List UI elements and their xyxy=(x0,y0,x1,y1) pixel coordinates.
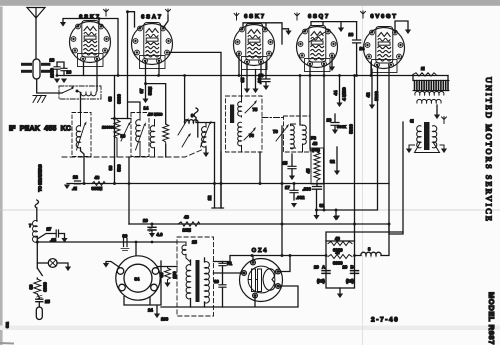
top cap tick xyxy=(295,13,300,20)
transformer IF2 dashed box xyxy=(226,62,263,152)
svg-text:15: 15 xyxy=(283,161,288,166)
node heater junction xyxy=(36,241,39,244)
svg-text:32: 32 xyxy=(330,159,335,164)
ground xyxy=(61,238,67,243)
ground xyxy=(103,263,109,268)
top cap tick xyxy=(104,9,109,16)
wire IF1 primary lead xyxy=(169,52,221,208)
tube V5 6V6GT xyxy=(364,14,405,73)
svg-text:.06: .06 xyxy=(257,77,262,84)
svg-text:19: 19 xyxy=(327,118,332,123)
resistor 46 47 filter xyxy=(326,236,355,288)
antenna xyxy=(27,8,45,19)
wire antenna lead xyxy=(35,18,37,59)
svg-text:100000: 100000 xyxy=(102,126,115,130)
svg-text:4.0: 4.0 xyxy=(157,232,164,237)
svg-text:22: 22 xyxy=(73,175,78,180)
fuse battery plug xyxy=(36,307,42,320)
svg-text:6I: 6I xyxy=(410,119,414,124)
capacitor 35 cathode xyxy=(240,62,250,93)
svg-text:50M: 50M xyxy=(148,86,153,95)
lamp pilot light xyxy=(37,259,68,268)
capacitor 29B xyxy=(343,265,359,284)
svg-text:29: 29 xyxy=(143,218,148,223)
capacitor 32 xyxy=(330,147,340,175)
wire IF2 secondary leads xyxy=(212,123,224,209)
svg-text:500: 500 xyxy=(117,164,122,172)
svg-text:17: 17 xyxy=(285,185,290,190)
ground xyxy=(54,79,60,84)
top cap tick xyxy=(442,117,447,124)
wire bus y75 xyxy=(57,75,448,77)
wire top grid bus xyxy=(63,19,118,76)
wire heater down xyxy=(36,236,38,268)
wire osc tap down xyxy=(80,93,82,113)
capacitor 17 xyxy=(285,184,305,208)
svg-text:30: 30 xyxy=(123,234,128,239)
inductor 7 heater choke xyxy=(29,221,37,243)
ground xyxy=(338,28,344,33)
svg-text:33: 33 xyxy=(159,272,164,277)
inductor detector coil 79 xyxy=(284,116,311,152)
svg-text:47: 47 xyxy=(336,250,341,255)
svg-text:48: 48 xyxy=(184,215,189,220)
svg-text:76: 76 xyxy=(249,133,254,138)
svg-text:MODEL R687: MODEL R687 xyxy=(487,292,496,345)
wire tube V5 plate down xyxy=(389,65,403,234)
resistor 30 xyxy=(29,279,48,294)
ground 24 xyxy=(148,308,169,322)
wire tube V3 cathode xyxy=(239,54,261,76)
svg-text:300M: 300M xyxy=(92,186,103,191)
svg-text:28: 28 xyxy=(50,58,55,63)
capacitor 29 electrolytic xyxy=(143,218,163,238)
svg-text:27: 27 xyxy=(47,227,52,232)
potentiometer 79 arrow xyxy=(273,124,289,141)
svg-text:100: 100 xyxy=(161,317,169,322)
ground chassis hatch xyxy=(33,96,46,103)
svg-text:.0I: .0I xyxy=(72,186,77,191)
svg-text:F1: F1 xyxy=(227,261,233,266)
svg-text:26: 26 xyxy=(67,70,72,75)
wire OZ4 plate top xyxy=(214,256,327,262)
wire speaker top feed xyxy=(135,242,137,256)
wire tube V5 cathode xyxy=(370,62,372,76)
svg-text:UNITED MOTORS SERVICE: UNITED MOTORS SERVICE xyxy=(484,77,493,223)
wire B feed right xyxy=(326,232,403,241)
node junctions on AVC bus xyxy=(83,85,296,186)
tube V2 6SA7 xyxy=(132,14,173,68)
coil antenna primary dashed box xyxy=(59,86,101,99)
svg-text:10: 10 xyxy=(214,279,219,284)
ground xyxy=(203,148,209,157)
svg-text:37: 37 xyxy=(139,88,144,93)
ground xyxy=(434,115,440,120)
svg-text:TO HEATERS: TO HEATERS xyxy=(38,164,43,191)
ground cathode V4 xyxy=(329,56,335,71)
tube V3 6SK7 xyxy=(234,14,275,70)
capacitor 23 coupling xyxy=(349,22,365,76)
inductor 9 osc padder coil xyxy=(178,76,198,148)
wire speaker mount box xyxy=(124,261,161,313)
ground xyxy=(64,185,70,190)
capacitor 44 xyxy=(333,76,347,108)
svg-text:.002: .002 xyxy=(296,195,305,200)
svg-text:12: 12 xyxy=(207,195,212,200)
wire audio coupling to V5 grid xyxy=(315,65,378,212)
diode plates V4 xyxy=(309,32,326,43)
svg-text:75: 75 xyxy=(253,107,258,112)
capacitor 25 xyxy=(36,294,51,307)
svg-text:2I: 2I xyxy=(421,66,425,71)
svg-text:6SQ7: 6SQ7 xyxy=(308,14,330,20)
capacitor 27 spark plate xyxy=(37,227,64,243)
node junctions on B plus xyxy=(151,223,391,226)
wire main line AVC bus xyxy=(67,183,389,185)
wire tube V4 pins down xyxy=(310,64,324,210)
wire volume to V4 grid xyxy=(281,126,283,256)
speaker 34 xyxy=(116,256,160,300)
inductor 14 osc grid coil xyxy=(144,106,163,158)
svg-text:IF PEAK 455 KC: IF PEAK 455 KC xyxy=(9,126,71,133)
svg-text:6SK7: 6SK7 xyxy=(79,14,101,20)
svg-text:34: 34 xyxy=(135,277,140,282)
svg-text:33: 33 xyxy=(108,96,113,101)
wire heater lead xyxy=(35,164,42,221)
wire volume bottom xyxy=(165,145,167,157)
wire AVC vertical xyxy=(108,76,122,184)
wire B+ vertical xyxy=(349,76,355,242)
transformer vibrator dashed box xyxy=(177,237,214,316)
ground xyxy=(61,79,67,84)
svg-text:45: 45 xyxy=(306,168,311,173)
svg-text:10M: 10M xyxy=(183,228,192,233)
wire osc B drop xyxy=(128,157,130,224)
resistor 21 output xyxy=(413,66,436,76)
ground xyxy=(334,216,340,221)
capacitor 18 xyxy=(259,62,271,90)
wire AVC dashdot xyxy=(262,117,284,119)
svg-text:(60): (60) xyxy=(317,279,325,284)
svg-text:A: A xyxy=(322,265,325,270)
svg-text:42: 42 xyxy=(366,92,371,97)
svg-text:24: 24 xyxy=(148,308,153,313)
svg-text:5000: 5000 xyxy=(374,91,379,101)
transformer output primary xyxy=(413,75,449,115)
tube V4 6SQ7 xyxy=(297,14,338,72)
wire filament line xyxy=(37,241,177,243)
ground xyxy=(441,149,447,154)
resistor 41 xyxy=(92,175,106,191)
capacitor 22 xyxy=(72,175,81,192)
svg-text:4 MEG: 4 MEG xyxy=(342,87,347,101)
wire gang dashed line xyxy=(62,150,203,158)
svg-text:6SA7: 6SA7 xyxy=(141,14,163,20)
ground xyxy=(405,30,411,35)
svg-text:48: 48 xyxy=(95,175,100,180)
svg-text:30: 30 xyxy=(29,284,34,289)
capacitor 29A xyxy=(314,265,330,284)
svg-text:.006: .006 xyxy=(303,187,312,192)
svg-text:25: 25 xyxy=(192,240,197,245)
node grid cap junction xyxy=(126,10,168,118)
wire tuning coil to AVC xyxy=(81,148,85,184)
svg-text:16: 16 xyxy=(121,134,126,139)
resistor 16 xyxy=(102,117,131,157)
svg-text:F3: F3 xyxy=(311,136,317,141)
svg-text:6V6GT: 6V6GT xyxy=(370,14,397,20)
svg-text:6SK7: 6SK7 xyxy=(244,14,266,20)
capacitor antenna trimmer plates xyxy=(21,59,51,79)
svg-text:6000: 6000 xyxy=(43,282,48,292)
svg-text:25: 25 xyxy=(45,299,50,304)
capacitor 37 grid xyxy=(139,61,153,103)
wire IF2 to diode xyxy=(259,152,261,184)
node junction dots xyxy=(56,17,373,257)
wire tube V3 plate cage xyxy=(243,23,289,44)
resistor 33 hum xyxy=(158,267,178,288)
ground xyxy=(313,210,319,220)
capacitor 42 xyxy=(366,69,380,109)
svg-text:39: 39 xyxy=(108,165,113,170)
svg-text:2-7-40: 2-7-40 xyxy=(371,317,399,324)
ground xyxy=(333,210,339,221)
capacitor buffer F1 xyxy=(214,261,233,307)
capacitor 19 xyxy=(327,114,347,134)
svg-text:79: 79 xyxy=(273,129,278,134)
node xyxy=(251,254,292,257)
ground xyxy=(406,149,412,154)
svg-text:.25 MEG: .25 MEG xyxy=(148,113,163,117)
wire B plus line xyxy=(129,223,389,225)
inductor IF1 secondary xyxy=(194,108,215,148)
top cap tick xyxy=(361,11,366,18)
resistor 45 grid leak box xyxy=(306,136,324,185)
resistor 48 xyxy=(178,215,200,233)
svg-text:5000: 5000 xyxy=(349,124,354,134)
wire tube V5 plate top xyxy=(395,21,408,33)
svg-text:392: 392 xyxy=(6,322,10,328)
speaker field coil and cone xyxy=(409,119,444,153)
top cap tick xyxy=(166,9,171,16)
wire tube V2 cathode xyxy=(158,61,160,76)
svg-text:1000: 1000 xyxy=(50,68,55,78)
inductor oscillator coil dashed box xyxy=(131,112,149,157)
wire speaker frame ground xyxy=(106,262,119,268)
svg-text:29: 29 xyxy=(343,265,348,270)
svg-text:500K: 500K xyxy=(337,125,346,129)
ground xyxy=(60,22,66,27)
svg-text:44: 44 xyxy=(333,90,338,95)
svg-text:35: 35 xyxy=(240,77,245,82)
svg-text:B: B xyxy=(351,265,354,270)
top cap tick xyxy=(234,13,239,20)
svg-text:14: 14 xyxy=(144,106,149,111)
svg-text:8000: 8000 xyxy=(117,94,122,104)
svg-text:31: 31 xyxy=(320,203,325,208)
ground xyxy=(65,267,71,272)
svg-text:(60): (60) xyxy=(346,279,354,284)
ground filter xyxy=(337,288,343,298)
tube V1 6SK7 xyxy=(70,14,111,66)
capacitor 36 screen xyxy=(252,70,262,94)
resistor osc cathode xyxy=(163,124,169,145)
svg-text:46: 46 xyxy=(335,236,340,241)
inductor 8 choke xyxy=(355,224,390,256)
wire antenna to coil xyxy=(37,79,62,93)
svg-text:OZ4: OZ4 xyxy=(252,248,269,254)
svg-text:100: 100 xyxy=(172,271,177,279)
wire OZ4 connections xyxy=(161,256,298,308)
capacitor 28 xyxy=(50,58,84,78)
svg-text:(1M): (1M) xyxy=(312,148,321,152)
svg-text:24: 24 xyxy=(360,46,365,51)
wire coil to tube V1 grid xyxy=(96,60,98,91)
svg-text:29: 29 xyxy=(314,265,319,270)
wire osc branch xyxy=(144,82,166,124)
svg-text:43: 43 xyxy=(313,141,318,146)
inductor antenna tuning coil dashed box xyxy=(72,112,91,157)
capacitor 15 xyxy=(283,76,301,181)
switch power xyxy=(37,268,42,279)
wire tube V4 plate cage xyxy=(311,22,357,27)
capacitor 36 vibrator xyxy=(121,234,129,251)
capacitor 31 grid xyxy=(303,184,325,210)
svg-text:23: 23 xyxy=(349,32,354,37)
tube V6 OZ4 xyxy=(240,248,283,302)
ground xyxy=(285,31,291,36)
